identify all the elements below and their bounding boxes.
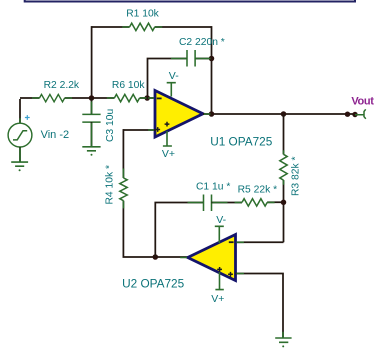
svg-text:R2 2.2k: R2 2.2k xyxy=(44,80,80,91)
U2 minus marker xyxy=(229,241,234,243)
green component leads and pin stubs xyxy=(20,27,284,337)
node C2/riser junction xyxy=(209,56,215,62)
svg-text:V+: V+ xyxy=(211,293,224,305)
selection box edge (top of canvas) xyxy=(25,0,355,2)
node U2 output / R4 / C1 xyxy=(153,254,159,260)
R6 leads xyxy=(107,97,147,99)
wire U1 + input to R4 xyxy=(123,129,155,131)
wire U2 + input to ground xyxy=(236,273,284,338)
Vout probe clip xyxy=(355,109,366,119)
op-amp U1 xyxy=(155,91,203,138)
resistor R3 xyxy=(280,154,287,180)
wire C2 right plate to riser xyxy=(195,58,211,60)
node output/R3 xyxy=(281,111,287,117)
resistor R4 xyxy=(120,178,127,201)
wire R3 bottom lead to U2 inverting xyxy=(236,180,284,242)
C1 leads xyxy=(188,202,228,204)
resistor R1 xyxy=(130,23,155,30)
source stubs xyxy=(19,118,21,161)
node Vout pin 1 xyxy=(345,112,350,117)
wire R6 to U1 inverting input xyxy=(140,97,156,99)
U1 minus marker xyxy=(157,97,162,99)
svg-text:R4 10k *: R4 10k * xyxy=(105,165,116,205)
capacitor C3 xyxy=(82,114,100,122)
U2 plus input marker xyxy=(228,272,233,277)
node R5/R3/U2 xyxy=(281,200,287,206)
svg-text:V+: V+ xyxy=(162,148,175,160)
R3 leads xyxy=(283,150,285,184)
svg-text:R3 82k *: R3 82k * xyxy=(291,157,302,197)
U2 plus power marker xyxy=(217,267,222,272)
node Vout pin 2 xyxy=(352,112,357,117)
svg-text:U2 OPA725: U2 OPA725 xyxy=(122,277,185,291)
U1 V- bar xyxy=(167,83,176,97)
wire top R1 right segment xyxy=(155,26,212,28)
U1 plus input marker xyxy=(155,127,160,132)
R4 leads xyxy=(122,169,124,209)
svg-text:U1 OPA725: U1 OPA725 xyxy=(210,135,273,149)
U2 pin stubs xyxy=(180,242,244,273)
U1 plus power marker xyxy=(165,122,170,127)
resistor R2 xyxy=(39,94,64,101)
C2 leads xyxy=(171,58,211,60)
U2 V- bar xyxy=(215,226,224,243)
U2 V+ bar xyxy=(215,272,223,290)
source VG1 circle xyxy=(8,123,32,147)
wire R2 to input node xyxy=(65,97,115,99)
ground under source xyxy=(11,162,28,166)
wire C2 branch from inverting node xyxy=(148,59,188,99)
wire R4 top lead xyxy=(122,129,124,178)
wire output net xyxy=(203,113,355,115)
wire top R1 left segment xyxy=(92,26,130,28)
wire C3 bottom lead xyxy=(91,122,93,147)
wire vertical C2/output riser xyxy=(211,26,213,114)
C3 leads xyxy=(91,102,93,147)
svg-text:C3 10u: C3 10u xyxy=(105,109,116,142)
svg-text:V-: V- xyxy=(169,70,179,82)
resistor R6 xyxy=(114,94,139,101)
source waveform xyxy=(13,131,27,140)
svg-text:C2 220n *: C2 220n * xyxy=(179,37,225,48)
U1 pin stubs xyxy=(148,98,210,130)
ground stub bottom right xyxy=(282,332,284,338)
svg-text:Vout: Vout xyxy=(351,96,374,108)
svg-text:V-: V- xyxy=(216,214,226,226)
wire R4 bottom lead to U2 output xyxy=(123,201,190,257)
ground bottom right xyxy=(275,338,291,342)
op-amp U2 xyxy=(188,235,236,281)
node output/C2 riser xyxy=(209,111,215,117)
svg-text:Vin -2: Vin -2 xyxy=(41,129,70,141)
U1 V+ bar xyxy=(163,131,172,146)
wire Vin riser to R2 xyxy=(20,98,39,123)
wire C3 top lead xyxy=(91,98,93,114)
svg-text:R6 10k: R6 10k xyxy=(112,80,145,91)
wire source to ground xyxy=(19,147,21,162)
resistor R5 xyxy=(242,199,267,206)
svg-text:C1 1u *: C1 1u * xyxy=(196,182,230,193)
R1 leads xyxy=(122,26,162,28)
wire vertical R1-left down to input node xyxy=(91,26,93,98)
R2 leads xyxy=(32,97,72,99)
wire C1 riser xyxy=(155,203,203,258)
R5 leads xyxy=(235,201,275,203)
svg-text:R5 22k *: R5 22k * xyxy=(238,185,278,196)
ground under C3 xyxy=(82,147,100,151)
capacitor C1 xyxy=(204,195,212,212)
capacitor C2 xyxy=(187,50,195,67)
wire R5 to R3 node xyxy=(267,201,283,203)
svg-text:R1 10k: R1 10k xyxy=(126,9,159,20)
node input (R1/R2/C3/R6) xyxy=(89,95,95,101)
wire R3 top lead xyxy=(283,114,285,154)
node inverting input (R6/C2/U1) xyxy=(144,95,150,101)
wire C1 to R5 xyxy=(212,202,243,204)
plus sign of source (blue) xyxy=(25,115,30,120)
